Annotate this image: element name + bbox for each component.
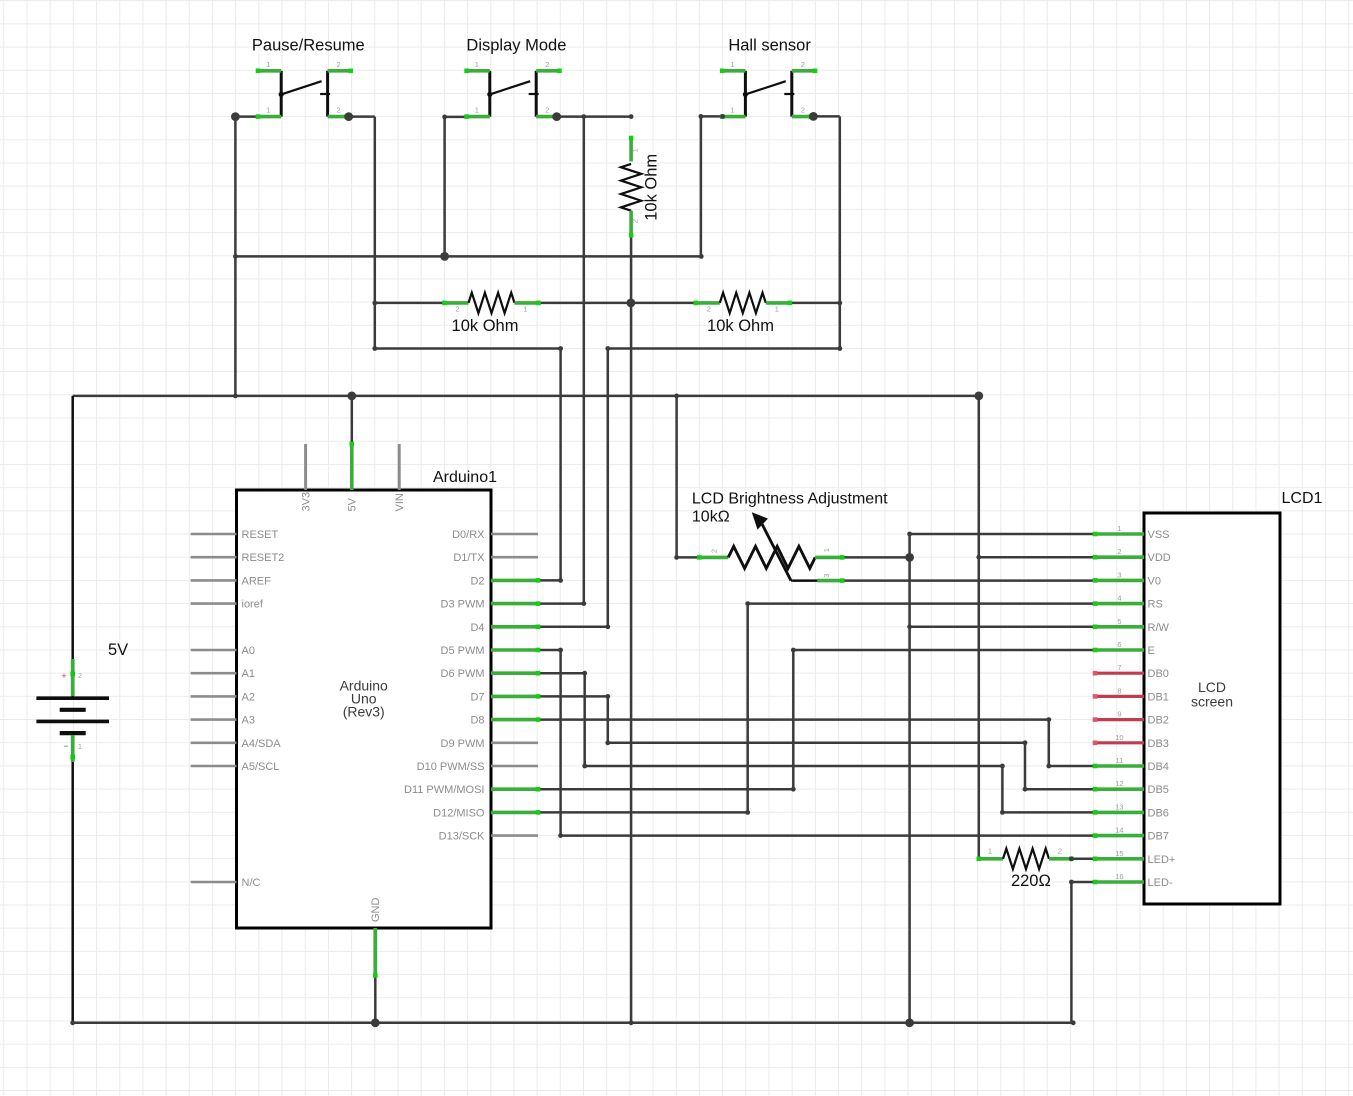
svg-text:2: 2 xyxy=(78,671,82,680)
Arduino pin N/C xyxy=(191,877,261,889)
svg-text:10k Ohm: 10k Ohm xyxy=(452,317,519,335)
svg-text:3: 3 xyxy=(822,574,831,578)
wire y=348.5 right segment to D4 xyxy=(608,347,840,350)
Arduino U1 box xyxy=(237,490,492,928)
svg-text:DB7: DB7 xyxy=(1148,831,1169,843)
wire D6 to DB6 xyxy=(538,672,585,675)
svg-text:D12/MISO: D12/MISO xyxy=(433,807,485,819)
wire riser x=374.8 down to y=348.5 xyxy=(374,117,377,349)
svg-text:D0/RX: D0/RX xyxy=(452,529,485,541)
svg-text:1: 1 xyxy=(988,846,992,855)
LCD pin 12 DB5 xyxy=(1093,779,1169,796)
LCD U2 box xyxy=(1144,513,1280,904)
svg-text:VDD: VDD xyxy=(1148,552,1171,564)
svg-text:screen: screen xyxy=(1191,694,1233,710)
svg-text:VSS: VSS xyxy=(1148,529,1170,541)
svg-text:RS: RS xyxy=(1148,599,1163,611)
svg-text:A2: A2 xyxy=(242,691,255,703)
svg-text:10k Ohm: 10k Ohm xyxy=(707,317,774,335)
pushbutton S2 Display Mode xyxy=(464,60,561,119)
wire Display bottom-left to riser x=444.6 xyxy=(445,116,466,119)
Arduino pin D5 PWM xyxy=(441,645,541,657)
LCD pin 6 E xyxy=(1093,640,1155,657)
LCD pin 7 DB0 xyxy=(1093,663,1169,680)
svg-text:DB6: DB6 xyxy=(1148,807,1169,819)
Arduino pin A1 xyxy=(191,668,255,680)
svg-text:1: 1 xyxy=(730,60,734,69)
Arduino pin D2 xyxy=(470,575,540,587)
wire Arduino GND pin down to GND rail xyxy=(374,975,377,1022)
svg-text:1: 1 xyxy=(1117,524,1121,533)
wire battery negative lead xyxy=(71,734,74,1023)
svg-text:1: 1 xyxy=(266,106,270,115)
svg-text:Arduino1: Arduino1 xyxy=(433,469,497,486)
Arduino pin RESET2 xyxy=(191,552,285,564)
svg-text:D13/SCK: D13/SCK xyxy=(439,831,486,843)
svg-text:5V: 5V xyxy=(347,497,359,511)
svg-text:DB5: DB5 xyxy=(1148,784,1169,796)
svg-text:15: 15 xyxy=(1115,849,1123,858)
svg-text:2: 2 xyxy=(1117,547,1121,556)
svg-text:2: 2 xyxy=(801,106,805,115)
svg-text:3: 3 xyxy=(1117,570,1121,579)
Arduino pin D10 PWM/SS xyxy=(417,761,538,773)
Arduino pin A0 xyxy=(191,645,255,657)
LCD pin 9 DB2 xyxy=(1093,710,1169,727)
wire D7 to DB5 xyxy=(538,695,608,698)
wire Hall bottom-right riser x=839.8 xyxy=(810,115,840,118)
wire Pause bottom-left to left riser xyxy=(235,115,258,118)
svg-text:2: 2 xyxy=(545,60,549,69)
wire y=348.5 left segment to D2 xyxy=(375,347,561,350)
svg-text:LCD1: LCD1 xyxy=(1282,490,1323,507)
wire resistor rail y=302.9 segments xyxy=(375,302,445,305)
svg-text:A1: A1 xyxy=(242,668,255,680)
Arduino pin ioref xyxy=(191,599,264,611)
svg-text:8: 8 xyxy=(1117,686,1121,695)
svg-text:2: 2 xyxy=(337,106,341,115)
LCD pin 11 DB4 xyxy=(1093,756,1169,773)
svg-text:DB0: DB0 xyxy=(1148,668,1169,680)
wire LED+ from 220 ohm xyxy=(1071,858,1095,861)
svg-text:D6 PWM: D6 PWM xyxy=(441,668,485,680)
Arduino pin D4 xyxy=(470,622,540,634)
wire left riser x=235 from button row down to 5V rail xyxy=(234,117,237,396)
svg-text:3V3: 3V3 xyxy=(301,492,313,512)
svg-text:2: 2 xyxy=(1058,846,1062,855)
Arduino pin A5/SCL xyxy=(191,761,280,773)
svg-text:9: 9 xyxy=(1117,710,1121,719)
pushbutton S3 Hall sensor xyxy=(720,60,817,119)
LCD pin 10 DB3 xyxy=(1093,733,1169,750)
svg-text:5V: 5V xyxy=(108,641,128,659)
Arduino pin RESET xyxy=(191,529,279,541)
svg-text:LED+: LED+ xyxy=(1148,854,1176,866)
svg-text:A0: A0 xyxy=(242,645,255,657)
wire battery positive lead xyxy=(71,396,74,697)
Arduino pin A3 xyxy=(191,715,255,727)
svg-text:7: 7 xyxy=(1117,663,1121,672)
svg-text:14: 14 xyxy=(1115,826,1123,835)
Arduino pin D11 PWM/MOSI xyxy=(404,784,540,796)
wire Pause bottom-right to riser x=374.8 xyxy=(346,115,375,118)
Arduino pin A2 xyxy=(191,691,255,703)
wire Arduino 5V pin to 5V rail xyxy=(351,396,354,446)
wire GND vertical x=909.6 xyxy=(908,534,911,1023)
resistor R4 220 Ohm xyxy=(977,846,1074,890)
LCD pin 5 R/W xyxy=(1093,617,1170,634)
Arduino pin D7 xyxy=(470,691,540,703)
LCD pin 3 V0 xyxy=(1093,570,1161,587)
LCD pin 8 DB1 xyxy=(1093,686,1169,703)
svg-text:V0: V0 xyxy=(1148,575,1161,587)
Arduino pin A4/SDA xyxy=(191,738,282,750)
svg-text:1: 1 xyxy=(78,742,82,751)
wire 10k vertical resistor bottom to GND rail xyxy=(630,235,633,1023)
resistor R1 10k Ohm xyxy=(442,293,541,335)
wire RS from D12 xyxy=(748,602,1095,605)
wire D8 to DB4 xyxy=(538,718,1049,721)
svg-text:LED-: LED- xyxy=(1148,877,1173,889)
wire potentiometer left riser x=676.6 xyxy=(675,396,678,558)
wire potentiometer pin1 to GND junction xyxy=(842,556,910,559)
wire R/W xyxy=(910,626,1095,629)
potentiometer LCD Brightness Adjustment 10k xyxy=(692,491,888,583)
svg-text:220Ω: 220Ω xyxy=(1011,872,1051,890)
LCD pin 1 VSS xyxy=(1093,524,1170,541)
battery BAT1 5V xyxy=(36,641,128,762)
LCD pin 16 LED- xyxy=(1093,872,1173,889)
svg-text:1: 1 xyxy=(775,304,779,313)
wire D5 to DB7 xyxy=(538,649,561,652)
Arduino pin D6 PWM xyxy=(441,668,541,680)
svg-text:D11 PWM/MOSI: D11 PWM/MOSI xyxy=(404,784,484,796)
svg-text:1: 1 xyxy=(475,106,479,115)
svg-text:2: 2 xyxy=(337,60,341,69)
svg-text:ioref: ioref xyxy=(242,599,264,611)
LCD pin 13 DB6 xyxy=(1093,802,1169,819)
svg-text:D7: D7 xyxy=(470,691,484,703)
svg-text:A4/SDA: A4/SDA xyxy=(242,738,282,750)
svg-text:1: 1 xyxy=(822,548,831,552)
Arduino pin D8 xyxy=(470,715,540,727)
svg-text:D9 PWM: D9 PWM xyxy=(441,738,485,750)
svg-text:VIN: VIN xyxy=(394,493,406,511)
wire 5V rail y=395.9 xyxy=(73,395,979,398)
Arduino pin D0/RX xyxy=(452,529,538,541)
svg-text:4: 4 xyxy=(1117,594,1121,603)
svg-text:(Rev3): (Rev3) xyxy=(343,704,385,720)
svg-text:11: 11 xyxy=(1116,756,1124,765)
svg-text:10kΩ: 10kΩ xyxy=(692,509,730,526)
svg-text:10k Ohm: 10k Ohm xyxy=(643,154,661,221)
wire Display bottom-right to 10k vertical resistor top xyxy=(555,115,631,118)
LCD pin 4 RS xyxy=(1093,594,1163,611)
svg-text:2: 2 xyxy=(710,549,719,553)
svg-text:RESET2: RESET2 xyxy=(242,552,285,564)
svg-text:D5 PWM: D5 PWM xyxy=(441,645,485,657)
svg-text:5: 5 xyxy=(1117,617,1121,626)
svg-text:12: 12 xyxy=(1115,779,1123,788)
svg-text:1: 1 xyxy=(730,106,734,115)
Arduino pin D12/MISO xyxy=(433,807,540,819)
svg-text:2: 2 xyxy=(631,219,640,223)
wire 5V vertical x=978.8 down to 220 ohm xyxy=(978,396,981,859)
svg-text:1: 1 xyxy=(631,148,640,152)
resistor R2 10k Ohm xyxy=(694,293,793,335)
Arduino GND pin xyxy=(370,898,382,978)
Arduino pin D1/TX xyxy=(453,552,538,564)
svg-text:DB2: DB2 xyxy=(1148,715,1169,727)
svg-text:D10 PWM/SS: D10 PWM/SS xyxy=(417,761,485,773)
svg-text:D4: D4 xyxy=(470,622,484,634)
svg-text:6: 6 xyxy=(1117,640,1121,649)
resistor R3 10k Ohm (vertical) xyxy=(621,136,661,238)
svg-text:Display Mode: Display Mode xyxy=(466,37,566,55)
wire GND rail y=1022.8 xyxy=(73,1022,1073,1025)
wire V0 from wiper xyxy=(793,579,817,582)
pushbutton S1 Pause/Resume xyxy=(256,60,353,119)
wire button rail y=256 xyxy=(235,255,701,258)
svg-text:DB1: DB1 xyxy=(1148,691,1169,703)
wire LED- to GND rail xyxy=(1071,881,1095,884)
svg-text:DB3: DB3 xyxy=(1148,738,1169,750)
svg-text:D1/TX: D1/TX xyxy=(453,552,485,564)
svg-text:A3: A3 xyxy=(242,715,255,727)
svg-text:A5/SCL: A5/SCL xyxy=(242,761,280,773)
wire D3 riser x=583.8 xyxy=(583,117,586,604)
Arduino pin AREF xyxy=(191,575,272,587)
LCD pin 14 DB7 xyxy=(1093,826,1169,843)
svg-text:1: 1 xyxy=(266,60,270,69)
svg-text:2: 2 xyxy=(707,304,711,313)
svg-text:N/C: N/C xyxy=(242,877,261,889)
svg-text:1: 1 xyxy=(523,304,527,313)
svg-text:2: 2 xyxy=(545,106,549,115)
svg-text:LCD Brightness Adjustment: LCD Brightness Adjustment xyxy=(692,491,888,508)
svg-text:RESET: RESET xyxy=(242,529,279,541)
svg-text:DB4: DB4 xyxy=(1148,761,1169,773)
Arduino pin D3 PWM xyxy=(441,599,541,611)
Arduino pin D13/SCK xyxy=(439,831,538,843)
wire VDD xyxy=(979,556,1095,559)
Arduino pin D9 PWM xyxy=(441,738,539,750)
svg-text:Hall sensor: Hall sensor xyxy=(728,37,811,55)
svg-text:Pause/Resume: Pause/Resume xyxy=(252,37,365,55)
svg-text:13: 13 xyxy=(1115,802,1123,811)
svg-text:16: 16 xyxy=(1115,872,1123,881)
svg-text:+: + xyxy=(61,671,66,681)
svg-text:D3 PWM: D3 PWM xyxy=(441,599,485,611)
Arduino top pins 3V3 5V VIN xyxy=(301,442,407,512)
wire E from D11 xyxy=(793,649,1095,652)
svg-text:GND: GND xyxy=(370,898,382,923)
wire VSS xyxy=(910,533,1095,536)
LCD pin 15 LED+ xyxy=(1093,849,1176,866)
svg-text:1: 1 xyxy=(475,60,479,69)
svg-text:R/W: R/W xyxy=(1148,622,1170,634)
wire Hall bottom-left to riser x=700.9 xyxy=(701,115,724,118)
svg-text:10: 10 xyxy=(1115,733,1123,742)
svg-text:2: 2 xyxy=(801,60,805,69)
LCD pin 2 VDD xyxy=(1093,547,1171,564)
svg-text:2: 2 xyxy=(455,304,459,313)
svg-text:E: E xyxy=(1148,645,1155,657)
svg-text:−: − xyxy=(63,741,68,751)
svg-text:D8: D8 xyxy=(470,715,484,727)
svg-text:AREF: AREF xyxy=(242,575,272,587)
svg-text:D2: D2 xyxy=(470,575,484,587)
